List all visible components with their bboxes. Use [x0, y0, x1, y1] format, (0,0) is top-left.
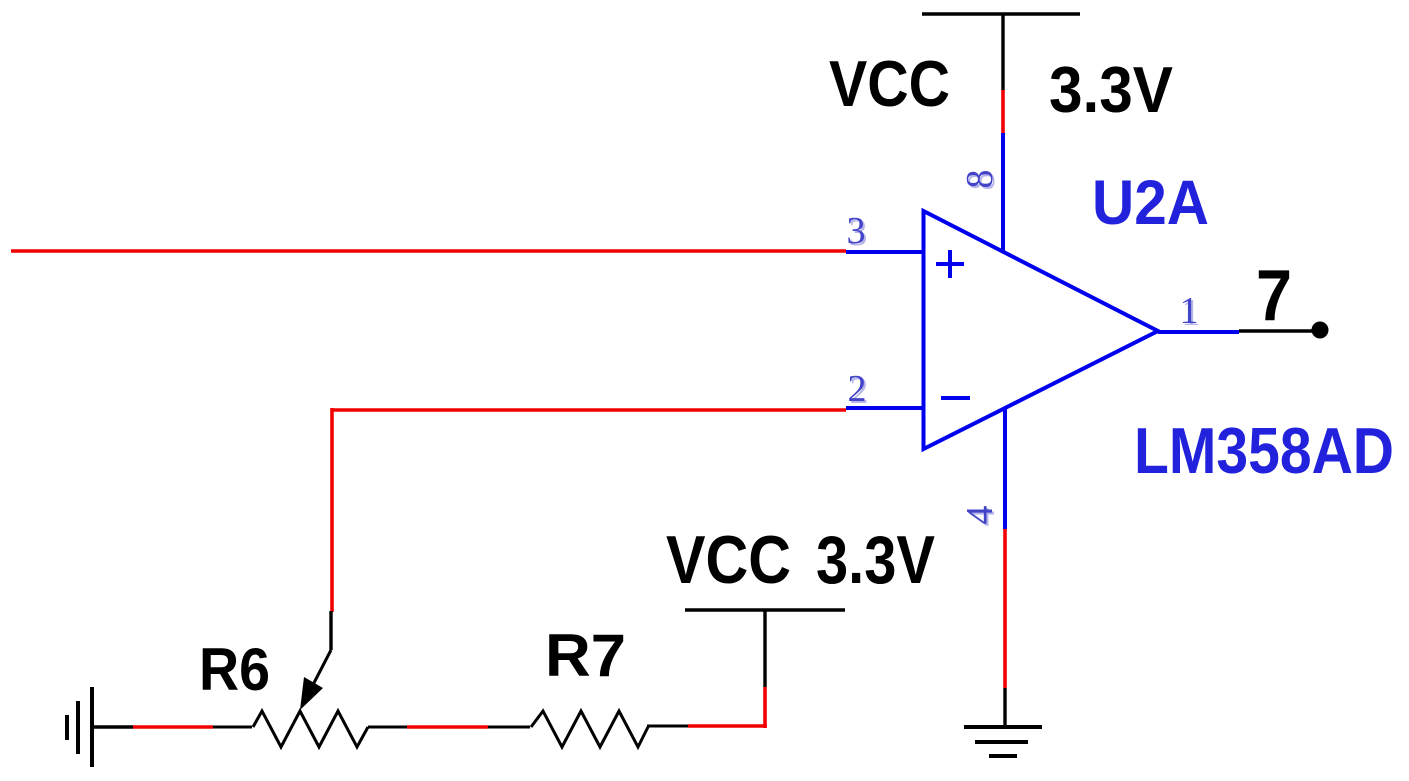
op-amp pin 3 stub (blue) — [846, 250, 925, 254]
op-amp minus marker — [941, 396, 970, 400]
potentiometer R6 (resistor body) — [253, 711, 368, 747]
power symbol VCC (bottom bar) — [685, 608, 845, 612]
ground (under op-amp) — [964, 727, 1042, 756]
op-amp plus marker — [936, 250, 964, 278]
svg-text:3.3V: 3.3V — [816, 522, 935, 598]
wire: VCC stem black — [1001, 14, 1004, 90]
svg-text:8: 8 — [959, 170, 1001, 189]
wire: pin 4 to ground (red) — [1003, 529, 1007, 688]
svg-text:1: 1 — [1180, 290, 1199, 332]
wire: VCC stem red segment — [1001, 90, 1005, 133]
wire: pin 4 ground stub (black) — [1003, 688, 1006, 727]
wire: output net (black) — [1239, 329, 1318, 332]
R6 wiper diagonal with arrowhead — [302, 650, 331, 706]
power symbol VCC (top bar) — [922, 12, 1080, 16]
svg-text:2: 2 — [848, 368, 867, 410]
wire: R7 right lead (black) — [647, 725, 688, 728]
wire: bottom VCC stem black — [763, 610, 766, 687]
svg-text:7: 7 — [1256, 256, 1292, 336]
op-amp pin 1 output stub (blue) — [1158, 330, 1239, 334]
ground (left, rotated) — [67, 687, 92, 767]
wire: between R6 and R7 (black-red-black) — [368, 726, 407, 729]
op-amp pin 2 stub (blue) — [846, 406, 925, 410]
svg-text:R7: R7 — [545, 622, 626, 689]
op-amp pin 4 wire (blue) — [1003, 409, 1007, 529]
op-amp U2A triangle — [924, 211, 1159, 449]
svg-text:VCC: VCC — [829, 47, 950, 120]
svg-text:3.3V: 3.3V — [1049, 53, 1173, 126]
wire: net to pin 2 (red horizontal) — [332, 408, 846, 412]
wire: net to pin 3 (red, from left edge) — [11, 249, 846, 253]
wire: net to pin 2 (red vertical down to R6 wiper) — [330, 408, 334, 612]
R6 wiper stem (black) — [329, 611, 332, 650]
op-amp U2A pin 8 wire (blue) — [1001, 133, 1005, 253]
svg-text:3: 3 — [847, 210, 866, 252]
svg-text:VCC: VCC — [666, 522, 791, 598]
resistor R7 — [531, 711, 648, 747]
svg-text:U2A: U2A — [1092, 168, 1209, 238]
wire: red from R7 to VCC stem — [688, 724, 767, 728]
svg-text:R6: R6 — [199, 636, 270, 703]
svg-text:4: 4 — [959, 506, 1001, 525]
junction dot on output net — [1312, 322, 1329, 339]
wire: left ground to R6 (black-red-black) — [92, 725, 133, 728]
wire: bottom VCC stem red — [763, 687, 767, 728]
svg-text:LM358AD: LM358AD — [1134, 414, 1394, 487]
